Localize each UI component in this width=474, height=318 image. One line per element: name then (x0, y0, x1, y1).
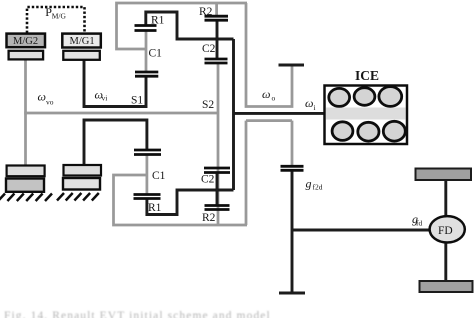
svg-text:i: i (314, 103, 316, 112)
svg-text:R1: R1 (151, 15, 165, 27)
svg-text:R2: R2 (199, 6, 213, 18)
svg-text:ω: ω (38, 89, 46, 103)
svg-text:vo: vo (46, 97, 54, 106)
svg-text:ICE: ICE (355, 68, 379, 83)
svg-text:M/G1: M/G1 (70, 36, 95, 47)
svg-text:S1: S1 (131, 95, 143, 107)
svg-text:M/G2: M/G2 (13, 36, 38, 47)
svg-text:fd: fd (416, 219, 422, 228)
svg-text:C1: C1 (149, 48, 163, 60)
svg-text:f2d: f2d (313, 183, 323, 192)
svg-text:g: g (306, 177, 312, 191)
svg-text:R1: R1 (148, 202, 162, 214)
svg-text:R2: R2 (202, 212, 216, 224)
svg-text:C2: C2 (202, 43, 216, 55)
svg-text:C2: C2 (201, 174, 215, 186)
svg-text:Fig. 14. Renault EVT initial s: Fig. 14. Renault EVT initial scheme and … (4, 310, 271, 318)
svg-text:S2: S2 (202, 99, 214, 111)
svg-text:ω: ω (262, 87, 270, 101)
svg-text:FD: FD (438, 225, 453, 237)
svg-text:ω: ω (305, 96, 313, 110)
svg-text:vi: vi (102, 93, 108, 102)
svg-text:o: o (272, 93, 276, 102)
svg-text:M/G: M/G (52, 12, 67, 21)
svg-text:C1: C1 (152, 170, 166, 182)
